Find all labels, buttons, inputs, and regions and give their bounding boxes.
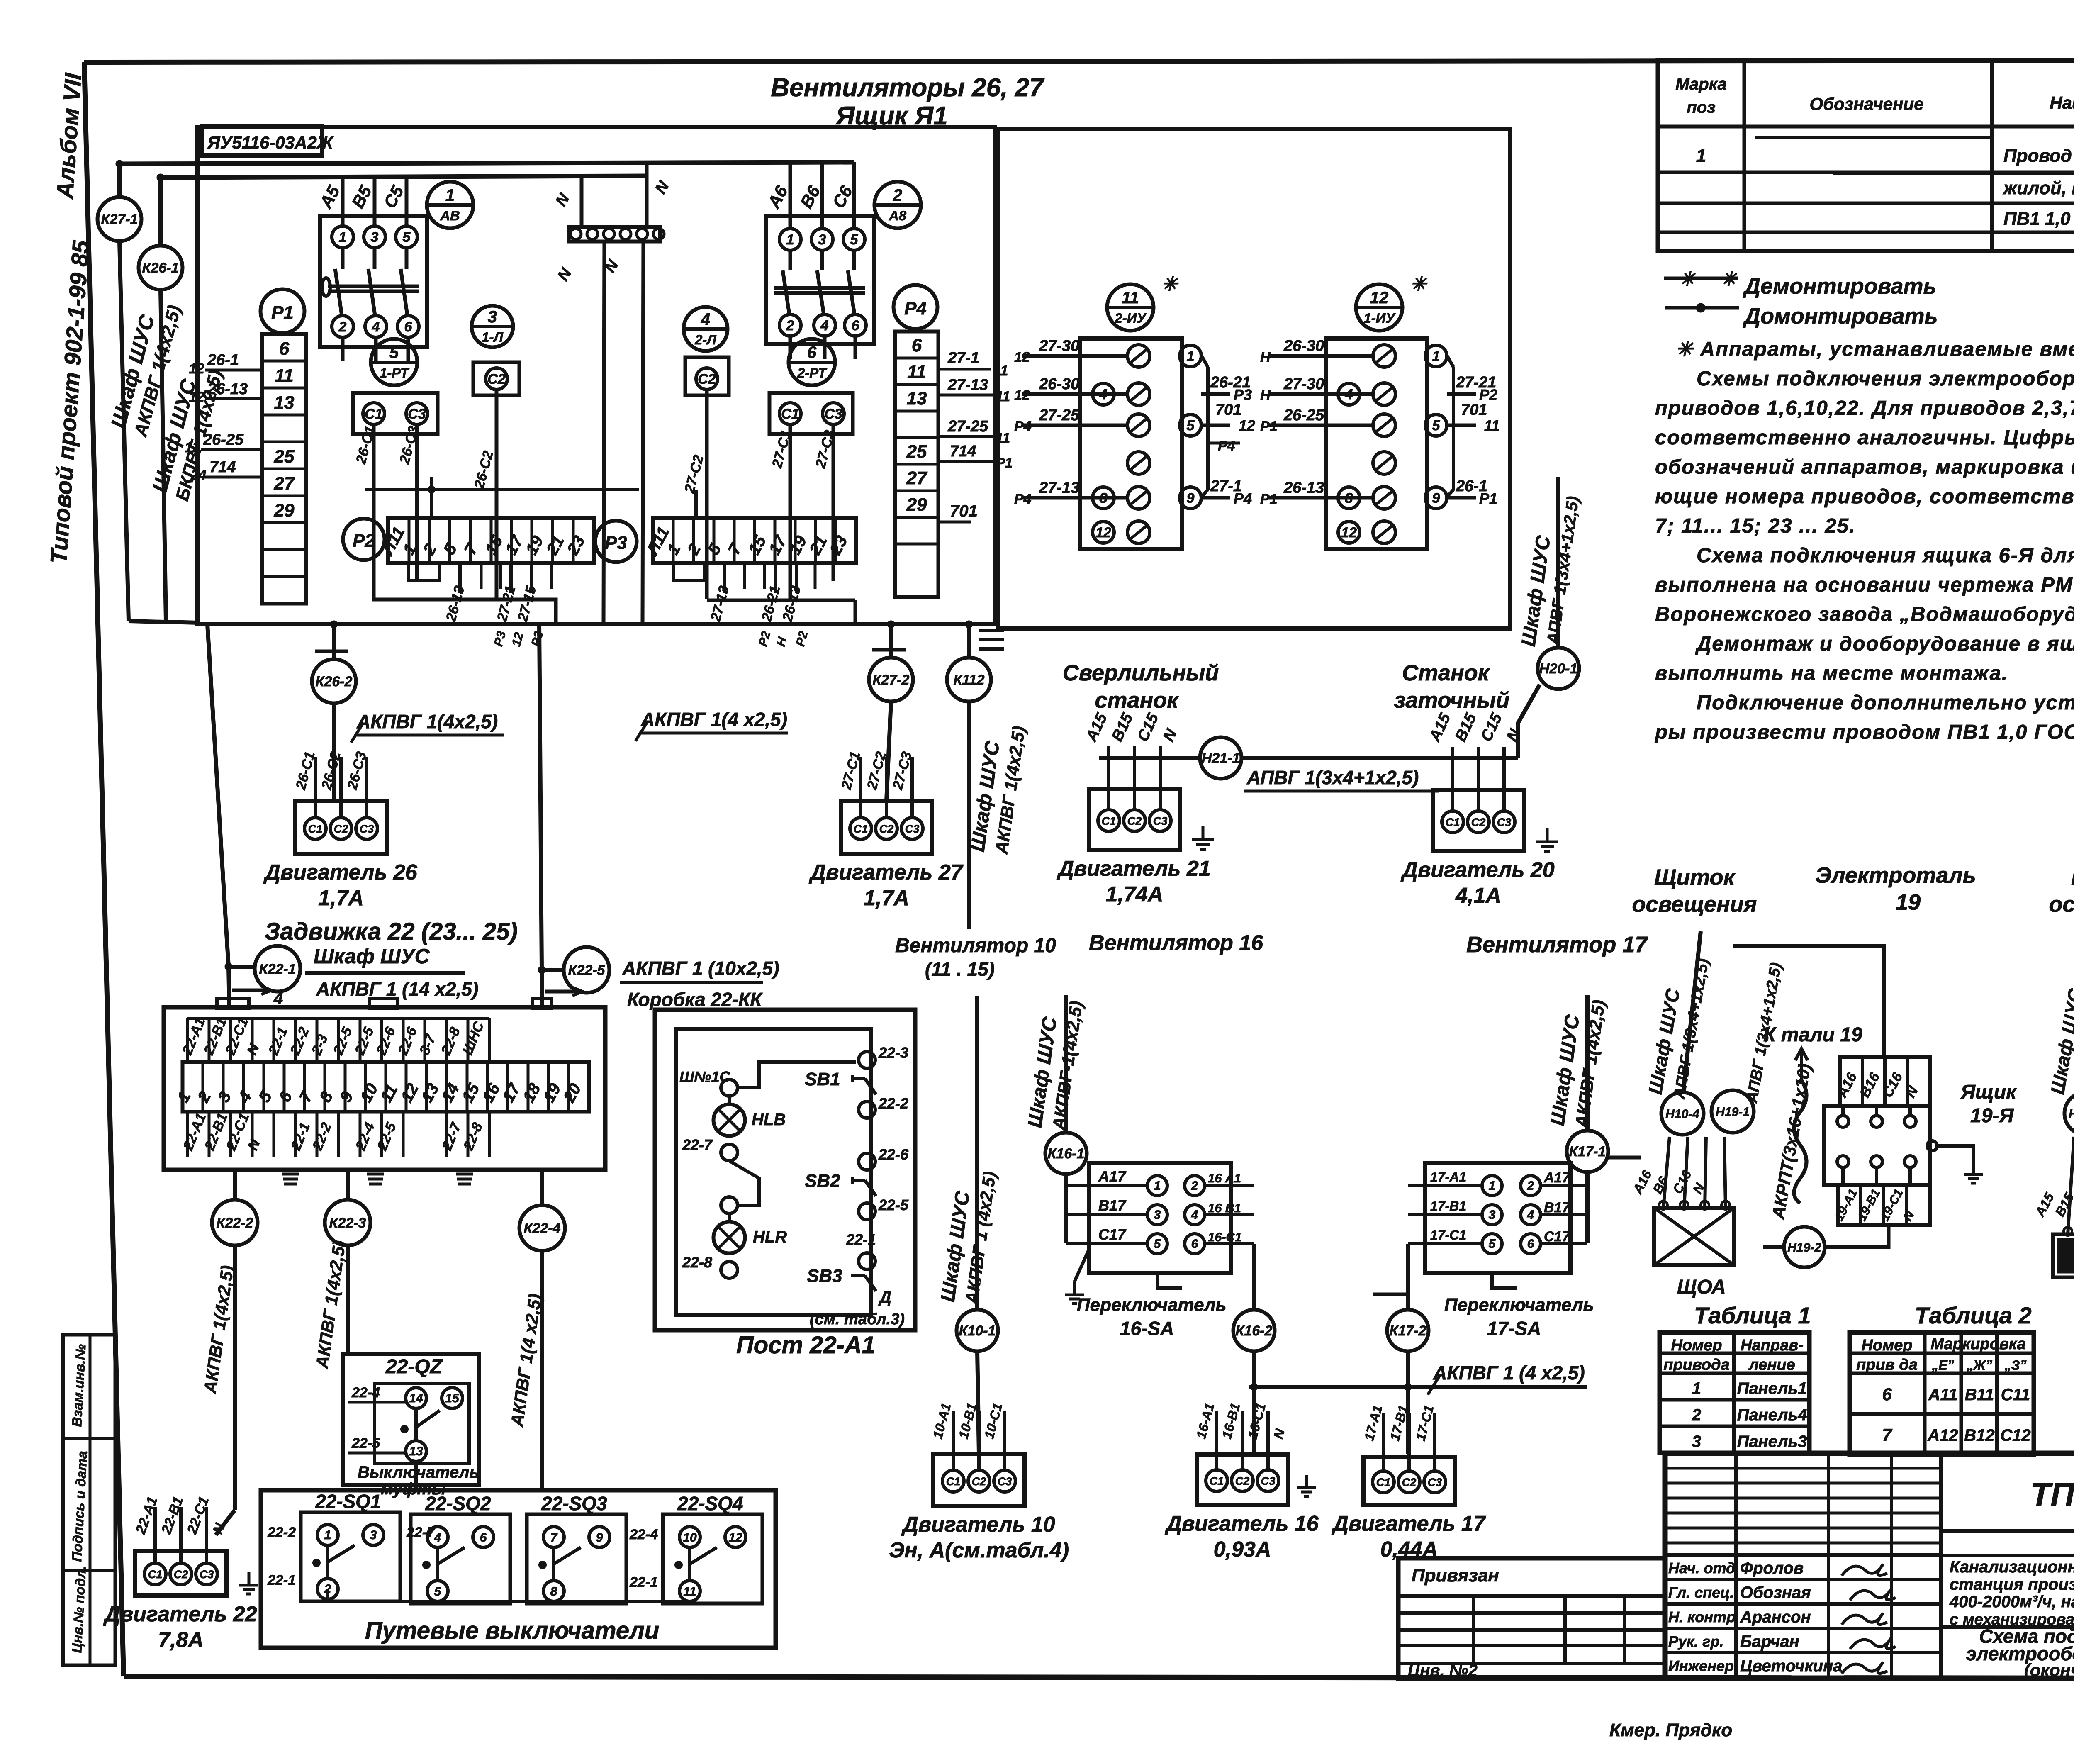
svg-text:6: 6	[1527, 1237, 1534, 1251]
svg-text:Коробка 22-КК: Коробка 22-КК	[627, 989, 763, 1010]
svg-text:✳ Аппараты, устанавливаемые вм: ✳ Аппараты, устанавливаемые вместо перек…	[1676, 338, 2074, 361]
svg-text:4: 4	[1191, 1208, 1198, 1222]
svg-text:Цнв. №2: Цнв. №2	[1408, 1662, 1478, 1680]
svg-text:24: 24	[190, 467, 207, 483]
svg-text:2: 2	[786, 318, 794, 334]
svg-text:Канализационная насосная: Канализационная насосная	[1950, 1558, 2074, 1576]
svg-text:5: 5	[1489, 1237, 1496, 1251]
svg-text:Двигатель 20: Двигатель 20	[1400, 858, 1554, 882]
svg-text:Таблица 2: Таблица 2	[1915, 1302, 2032, 1328]
svg-text:Задвижка 22 (23... 25): Задвижка 22 (23... 25)	[265, 918, 518, 945]
svg-text:Р1: Р1	[1260, 491, 1278, 507]
svg-text:(окончание): (окончание)	[2024, 1660, 2074, 1680]
svg-text:15: 15	[445, 1391, 460, 1405]
svg-text:Схемы подключения электрообо: Схемы подключения электрооборудования пр…	[1697, 368, 2074, 390]
svg-text:13: 13	[907, 388, 927, 409]
svg-text:Демонтаж и дооборудование в: Демонтаж и дооборудование в ящиках Я1, 6…	[1695, 633, 2074, 655]
svg-text:22-1: 22-1	[846, 1231, 876, 1248]
svg-text:(11 . 15): (11 . 15)	[925, 958, 995, 980]
svg-text:17-С1: 17-С1	[1430, 1228, 1466, 1243]
svg-text:Р4: Р4	[1234, 490, 1252, 507]
svg-text:1: 1	[1489, 1179, 1496, 1193]
svg-text:Щиток: Щиток	[2071, 865, 2074, 890]
svg-text:2: 2	[893, 186, 902, 205]
svg-text:Вентилятор 17: Вентилятор 17	[1466, 932, 1648, 957]
svg-text:С17: С17	[1544, 1229, 1570, 1245]
svg-text:26-13: 26-13	[1283, 479, 1324, 497]
svg-text:С3: С3	[1153, 815, 1168, 827]
svg-text:1-ИУ: 1-ИУ	[1364, 310, 1396, 326]
svg-text:Н. контр: Н. контр	[1668, 1608, 1736, 1625]
svg-text:6: 6	[404, 319, 413, 335]
svg-text:Номер: Номер	[1671, 1337, 1722, 1354]
svg-text:Эн, А(см.табл.4): Эн, А(см.табл.4)	[889, 1538, 1069, 1562]
svg-text:26-13: 26-13	[207, 380, 248, 398]
svg-text:9: 9	[1187, 490, 1195, 506]
svg-text:2: 2	[1191, 1179, 1198, 1193]
svg-text:К16-1: К16-1	[1048, 1146, 1085, 1162]
svg-text:5: 5	[1154, 1237, 1161, 1251]
svg-text:Двигатель 27: Двигатель 27	[808, 860, 963, 884]
svg-text:4: 4	[434, 1531, 441, 1545]
svg-text:Р3: Р3	[1234, 386, 1252, 403]
svg-text:ление: ление	[1748, 1356, 1795, 1374]
svg-text:10: 10	[683, 1531, 697, 1545]
svg-text:жилой, ГОСТ6323-79,: жилой, ГОСТ6323-79,	[2003, 178, 2074, 198]
svg-text:12: 12	[185, 440, 200, 456]
svg-text:Шкаф ШУС: Шкаф ШУС	[314, 945, 430, 968]
svg-text:✳: ✳	[1410, 273, 1428, 295]
svg-text:6: 6	[807, 344, 817, 362]
svg-text:Р4: Р4	[1014, 419, 1032, 434]
svg-text:Маркировка: Маркировка	[1930, 1335, 2025, 1353]
svg-text:12: 12	[1341, 525, 1357, 541]
svg-text:Переключатель: Переключатель	[1077, 1295, 1227, 1315]
svg-text:Сверлильный: Сверлильный	[1063, 660, 1219, 685]
svg-text:С1: С1	[308, 823, 323, 835]
svg-text:701: 701	[1461, 401, 1487, 419]
svg-text:3: 3	[1692, 1433, 1701, 1451]
svg-text:19: 19	[1896, 890, 1921, 915]
svg-text:22-1: 22-1	[629, 1574, 658, 1590]
svg-text:7: 7	[1882, 1425, 1892, 1445]
svg-text:С3: С3	[905, 823, 920, 835]
svg-text:12: 12	[728, 1531, 742, 1545]
svg-text:11: 11	[683, 1585, 696, 1598]
svg-text:2: 2	[1692, 1406, 1701, 1424]
svg-text:✳: ✳	[1721, 268, 1738, 290]
svg-text:Привязан: Привязан	[1412, 1565, 1499, 1586]
svg-text:26-30: 26-30	[1283, 337, 1324, 355]
svg-text:АКПВГ 1(4 х2,5): АКПВГ 1(4 х2,5)	[640, 709, 787, 730]
svg-text:Р1: Р1	[1479, 490, 1497, 507]
svg-text:22-4: 22-4	[351, 1385, 380, 1401]
svg-text:12: 12	[1095, 525, 1111, 541]
svg-text:Панель3: Панель3	[1737, 1433, 1807, 1451]
svg-text:13: 13	[274, 392, 295, 413]
svg-text:Электроталь: Электроталь	[1815, 863, 1976, 888]
svg-text:С3: С3	[200, 1568, 214, 1581]
svg-text:7,8А: 7,8А	[158, 1628, 204, 1652]
svg-text:16-SA: 16-SA	[1120, 1318, 1174, 1339]
svg-text:С11: С11	[2001, 1386, 2030, 1404]
svg-text:Инженер: Инженер	[1668, 1657, 1734, 1674]
svg-text:В17: В17	[1098, 1197, 1127, 1214]
svg-text:5: 5	[850, 232, 859, 248]
svg-text:В11: В11	[1965, 1386, 1994, 1404]
svg-text:Пост 22-А1: Пост 22-А1	[736, 1332, 875, 1359]
svg-text:С12: С12	[2000, 1426, 2030, 1445]
svg-text:26-25: 26-25	[203, 431, 244, 448]
svg-text:27-13: 27-13	[1039, 479, 1079, 497]
svg-text:„Е”: „Е”	[1931, 1358, 1954, 1373]
svg-text:8: 8	[550, 1585, 557, 1598]
svg-text:1-Л: 1-Л	[482, 329, 504, 345]
svg-text:Вентилятор 10: Вентилятор 10	[895, 935, 1056, 957]
svg-text:А12: А12	[1927, 1426, 1958, 1445]
svg-text:✳: ✳	[1679, 268, 1697, 290]
svg-text:Направ-: Направ-	[1741, 1337, 1804, 1354]
svg-text:22-SQ4: 22-SQ4	[677, 1493, 743, 1514]
svg-text:26-25: 26-25	[1283, 407, 1324, 424]
svg-text:К26-1: К26-1	[142, 260, 179, 276]
svg-text:Вентиляторы 26, 27: Вентиляторы 26, 27	[771, 73, 1044, 102]
svg-text:С2: С2	[1127, 815, 1142, 827]
svg-text:3: 3	[1489, 1208, 1496, 1222]
svg-text:Демонтировать: Демонтировать	[1743, 274, 1937, 299]
svg-text:С2: С2	[1402, 1476, 1417, 1489]
svg-text:С3: С3	[408, 406, 426, 422]
svg-text:Н21-1: Н21-1	[1202, 750, 1240, 766]
svg-text:5: 5	[1432, 418, 1441, 434]
svg-text:27-25: 27-25	[1039, 407, 1080, 424]
svg-text:С2: С2	[879, 823, 894, 835]
svg-text:Нач. отд.: Нач. отд.	[1668, 1559, 1739, 1576]
svg-text:А8: А8	[889, 208, 907, 223]
svg-text:С1: С1	[1376, 1476, 1391, 1489]
svg-text:Панель1: Панель1	[1737, 1379, 1807, 1398]
svg-text:К22-4: К22-4	[524, 1221, 561, 1236]
svg-text:(см. табл.3): (см. табл.3)	[810, 1311, 905, 1328]
svg-text:АКПВГ 1(4х2,5): АКПВГ 1(4х2,5)	[356, 711, 498, 732]
svg-text:АВ: АВ	[440, 208, 460, 223]
svg-text:прив да: прив да	[1856, 1356, 1918, 1374]
svg-text:1,7А: 1,7А	[864, 886, 909, 910]
svg-text:ЯУ5116-03А2Ж: ЯУ5116-03А2Ж	[207, 133, 334, 152]
svg-text:1,7А: 1,7А	[318, 886, 364, 910]
svg-text:С1: С1	[781, 406, 799, 422]
svg-text:Р1: Р1	[271, 302, 294, 323]
svg-text:выполнить на месте монтажа.: выполнить на месте монтажа.	[1655, 662, 2008, 685]
svg-text:Вентилятор 16: Вентилятор 16	[1089, 931, 1263, 955]
svg-text:Обозначение: Обозначение	[1809, 94, 1923, 114]
svg-text:С17: С17	[1098, 1226, 1127, 1243]
svg-text:Панель4: Панель4	[1737, 1406, 1807, 1424]
svg-text:6: 6	[1191, 1237, 1198, 1251]
svg-text:27-30: 27-30	[1039, 337, 1079, 355]
svg-text:К22-5: К22-5	[568, 962, 606, 978]
svg-text:7; 11... 15; 23 ... 25.: 7; 11... 15; 23 ... 25.	[1655, 515, 1856, 537]
svg-text:1: 1	[339, 229, 347, 245]
svg-text:С3: С3	[1428, 1476, 1442, 1489]
svg-text:С2: С2	[174, 1568, 188, 1581]
svg-text:Р2: Р2	[353, 531, 375, 551]
svg-text:701: 701	[950, 502, 978, 520]
svg-text:29: 29	[274, 500, 295, 521]
svg-text:14: 14	[409, 1391, 423, 1405]
svg-text:К тали 19: К тали 19	[1763, 1024, 1862, 1046]
svg-text:714: 714	[950, 443, 976, 460]
svg-text:Выключатель: Выключатель	[358, 1463, 479, 1481]
svg-text:С2: С2	[487, 371, 506, 387]
svg-text:ТП902-1-99 85 -ЭМ: ТП902-1-99 85 -ЭМ	[2030, 1476, 2074, 1513]
svg-text:Р4: Р4	[904, 298, 927, 319]
svg-text:станок: станок	[1095, 688, 1179, 713]
svg-text:С1: С1	[365, 406, 382, 422]
svg-text:Барчан: Барчан	[1740, 1632, 1799, 1651]
svg-text:1: 1	[324, 1528, 331, 1542]
svg-text:Н19-1: Н19-1	[1716, 1105, 1750, 1119]
svg-text:Н19-2: Н19-2	[1787, 1241, 1821, 1255]
svg-text:27-13: 27-13	[947, 376, 988, 394]
svg-text:1: 1	[1154, 1179, 1161, 1193]
svg-text:4: 4	[273, 989, 283, 1008]
svg-text:1: 1	[445, 186, 455, 205]
svg-text:С2: С2	[698, 371, 716, 387]
svg-text:станция произв дительностью: станция произв дительностью	[1950, 1575, 2074, 1593]
svg-text:Р1: Р1	[1260, 419, 1278, 434]
svg-text:Двигатель 26: Двигатель 26	[263, 860, 417, 884]
svg-text:В12: В12	[1964, 1426, 1994, 1445]
svg-text:Двигатель 16: Двигатель 16	[1164, 1512, 1319, 1536]
svg-text:16 В1: 16 В1	[1208, 1201, 1241, 1215]
svg-text:26-30: 26-30	[1039, 375, 1079, 393]
svg-text:1: 1	[786, 232, 794, 248]
svg-text:В17: В17	[1544, 1200, 1570, 1216]
svg-text:2-ИУ: 2-ИУ	[1115, 310, 1147, 326]
svg-text:Схема подключения ящика 6-Я: Схема подключения ящика 6-Я для решетки …	[1697, 544, 2074, 567]
svg-text:22-8: 22-8	[682, 1254, 712, 1271]
svg-text:6: 6	[852, 318, 860, 334]
svg-text:С1: С1	[1446, 816, 1460, 828]
svg-text:29: 29	[906, 495, 927, 515]
svg-text:Щиток: Щиток	[1654, 865, 1736, 890]
svg-text:22-4: 22-4	[629, 1527, 658, 1542]
svg-text:25: 25	[274, 446, 295, 467]
svg-text:Фролов: Фролов	[1740, 1559, 1804, 1577]
svg-text:17-В1: 17-В1	[1430, 1199, 1466, 1213]
svg-text:Н10-5: Н10-5	[2069, 1107, 2074, 1121]
svg-text:Станок: Станок	[1402, 660, 1490, 685]
svg-text:С2: С2	[1235, 1475, 1250, 1487]
svg-text:27-30: 27-30	[1283, 375, 1324, 393]
svg-text:4: 4	[701, 310, 710, 329]
svg-text:освещения: освещения	[2049, 892, 2074, 917]
svg-text:привода: привода	[1663, 1356, 1729, 1374]
svg-text:16-С1: 16-С1	[1208, 1230, 1242, 1244]
svg-text:HLR: HLR	[753, 1228, 787, 1246]
svg-text:22-2: 22-2	[267, 1525, 296, 1540]
svg-text:11: 11	[1484, 417, 1500, 434]
svg-text:27: 27	[274, 473, 295, 494]
svg-text:Переключатель: Переключатель	[1444, 1295, 1594, 1315]
svg-text:2: 2	[1527, 1179, 1534, 1193]
svg-text:27: 27	[906, 468, 928, 488]
svg-text:„З”: „З”	[2004, 1358, 2027, 1373]
svg-text:12: 12	[1370, 289, 1389, 307]
svg-text:Провод с медной: Провод с медной	[2003, 146, 2074, 166]
svg-text:Двигатель 10: Двигатель 10	[901, 1513, 1055, 1537]
svg-text:Подключение дополнительно у: Подключение дополнительно устанавливаемо…	[1697, 692, 2074, 714]
svg-text:22-2: 22-2	[878, 1095, 908, 1112]
svg-text:К22-2: К22-2	[217, 1215, 253, 1231]
svg-text:Р3: Р3	[605, 533, 627, 553]
svg-text:„Ж”: „Ж”	[1966, 1358, 1992, 1373]
svg-text:22-3: 22-3	[878, 1044, 908, 1061]
svg-text:Кмер. Прядко: Кмер. Прядко	[1609, 1720, 1732, 1740]
svg-text:9: 9	[596, 1531, 603, 1545]
svg-text:К112: К112	[953, 672, 984, 688]
svg-text:1: 1	[1696, 146, 1706, 166]
svg-text:выполнена на основании черт: выполнена на основании чертежа РМУ-200 0…	[1655, 574, 2074, 596]
svg-text:11: 11	[907, 362, 926, 382]
svg-text:5: 5	[434, 1585, 442, 1598]
svg-text:3: 3	[488, 308, 497, 326]
svg-text:Двигатель 22: Двигатель 22	[103, 1602, 257, 1626]
svg-text:Обозная: Обозная	[1740, 1584, 1811, 1602]
svg-text:714: 714	[209, 458, 236, 476]
svg-text:19-Я: 19-Я	[1970, 1105, 2014, 1127]
svg-text:3: 3	[1154, 1208, 1161, 1222]
svg-text:обозначений аппаратов, марки: обозначений аппаратов, маркировка цепей …	[1655, 456, 2074, 478]
svg-text:А17: А17	[1543, 1170, 1570, 1186]
svg-text:Р2: Р2	[1479, 386, 1497, 403]
svg-text:Домонтировать: Домонтировать	[1743, 304, 1938, 329]
svg-text:Н: Н	[1260, 349, 1271, 365]
svg-text:6: 6	[912, 335, 922, 356]
svg-text:поз: поз	[1687, 98, 1715, 117]
svg-text:Двигатель 21: Двигатель 21	[1056, 857, 1210, 881]
svg-text:4: 4	[1527, 1208, 1534, 1222]
svg-text:9: 9	[1432, 490, 1440, 506]
svg-text:АКПВГ 1 (4 х2,5): АКПВГ 1 (4 х2,5)	[1433, 1362, 1585, 1384]
svg-text:Марка: Марка	[1675, 75, 1727, 93]
svg-text:12: 12	[1014, 387, 1030, 403]
svg-text:освещения: освещения	[1632, 892, 1757, 917]
svg-text:С2: С2	[334, 823, 348, 835]
svg-text:Д: Д	[878, 1288, 891, 1306]
svg-text:0,93А: 0,93А	[1214, 1537, 1271, 1562]
svg-text:ПВ1 1,0: ПВ1 1,0	[2003, 209, 2071, 229]
svg-text:16 А1: 16 А1	[1208, 1172, 1241, 1185]
svg-text:6: 6	[1882, 1384, 1892, 1404]
svg-text:А17: А17	[1098, 1168, 1127, 1185]
svg-text:Р4: Р4	[1218, 438, 1235, 454]
svg-text:С1: С1	[854, 823, 868, 835]
svg-text:25: 25	[906, 441, 927, 462]
svg-text:К26-2: К26-2	[316, 674, 353, 690]
svg-text:2-РТ: 2-РТ	[797, 365, 828, 380]
svg-text:1: 1	[1187, 348, 1195, 364]
svg-text:3: 3	[371, 229, 379, 245]
svg-text:11: 11	[275, 365, 294, 386]
svg-text:12: 12	[1239, 417, 1255, 434]
svg-text:приводов 1,6,10,22. Для прив: приводов 1,6,10,22. Для приводов 2,3,7; …	[1655, 397, 2074, 419]
svg-text:701: 701	[1215, 401, 1241, 419]
svg-text:1,74А: 1,74А	[1106, 882, 1164, 906]
svg-text:1-РТ: 1-РТ	[380, 365, 410, 380]
svg-text:12: 12	[1014, 349, 1030, 365]
svg-text:Арансон: Арансон	[1740, 1608, 1811, 1626]
svg-text:К16-2: К16-2	[1236, 1323, 1273, 1339]
svg-text:27-25: 27-25	[947, 418, 988, 435]
svg-text:✳: ✳	[1161, 273, 1179, 295]
svg-text:А11: А11	[1928, 1386, 1957, 1404]
svg-text:Ящик: Ящик	[1960, 1081, 2017, 1103]
svg-text:С3: С3	[1497, 816, 1512, 828]
svg-text:АПВГ 1(3х4+1х2,5): АПВГ 1(3х4+1х2,5)	[1246, 767, 1419, 788]
svg-text:Рук. гр.: Рук. гр.	[1668, 1633, 1724, 1650]
svg-text:HLB: HLB	[752, 1111, 786, 1129]
svg-text:С1: С1	[946, 1475, 961, 1488]
svg-text:4: 4	[372, 319, 380, 335]
svg-text:22-5: 22-5	[878, 1196, 909, 1213]
svg-text:22-6: 22-6	[878, 1146, 909, 1163]
svg-text:С1: С1	[1102, 815, 1116, 827]
svg-text:17-SA: 17-SA	[1487, 1318, 1541, 1339]
svg-text:заточный: заточный	[1394, 688, 1509, 713]
svg-text:22-QZ: 22-QZ	[385, 1356, 443, 1378]
svg-text:К27-2: К27-2	[873, 672, 910, 688]
svg-text:К22-1: К22-1	[259, 961, 296, 977]
svg-text:Таблица 1: Таблица 1	[1694, 1302, 1811, 1328]
svg-text:Номер: Номер	[1861, 1337, 1912, 1354]
svg-text:1: 1	[1692, 1379, 1701, 1398]
svg-text:17-А1: 17-А1	[1430, 1170, 1466, 1184]
svg-text:26-1: 26-1	[207, 351, 239, 369]
svg-text:22-7: 22-7	[682, 1136, 713, 1153]
svg-text:Путевые выключатели: Путевые выключатели	[365, 1617, 659, 1644]
svg-text:АКПВГ 1 (10х2,5): АКПВГ 1 (10х2,5)	[622, 958, 779, 979]
svg-text:К17-1: К17-1	[1569, 1144, 1606, 1160]
svg-text:Воронежского завода „Водмаш: Воронежского завода „Водмашоборудование”…	[1655, 603, 2074, 626]
svg-text:Н10-4: Н10-4	[1665, 1107, 1699, 1121]
svg-text:1: 1	[1432, 348, 1440, 364]
svg-text:3: 3	[370, 1528, 377, 1542]
svg-text:6: 6	[279, 339, 290, 359]
svg-text:22-SQ3: 22-SQ3	[541, 1493, 607, 1514]
svg-text:2: 2	[338, 319, 347, 335]
svg-text:К17-2: К17-2	[1390, 1323, 1426, 1339]
svg-text:7: 7	[550, 1531, 558, 1545]
svg-text:6: 6	[480, 1531, 487, 1545]
svg-text:22-SQ1: 22-SQ1	[315, 1491, 381, 1512]
svg-text:SB2: SB2	[805, 1171, 840, 1191]
svg-text:С3: С3	[824, 406, 842, 422]
svg-text:Гл. спец.: Гл. спец.	[1668, 1584, 1734, 1601]
svg-text:2-Л: 2-Л	[694, 332, 717, 347]
svg-text:С3: С3	[360, 823, 374, 835]
svg-text:Н: Н	[1260, 387, 1271, 403]
svg-text:С1: С1	[148, 1568, 163, 1581]
svg-text:С2: С2	[1471, 816, 1486, 828]
svg-text:5: 5	[1187, 418, 1195, 434]
svg-text:С3: С3	[1261, 1475, 1276, 1487]
svg-text:22-1: 22-1	[267, 1572, 296, 1588]
svg-text:11: 11	[1122, 289, 1139, 307]
svg-text:ЩОА: ЩОА	[1677, 1276, 1726, 1298]
svg-text:22-5: 22-5	[351, 1435, 380, 1451]
